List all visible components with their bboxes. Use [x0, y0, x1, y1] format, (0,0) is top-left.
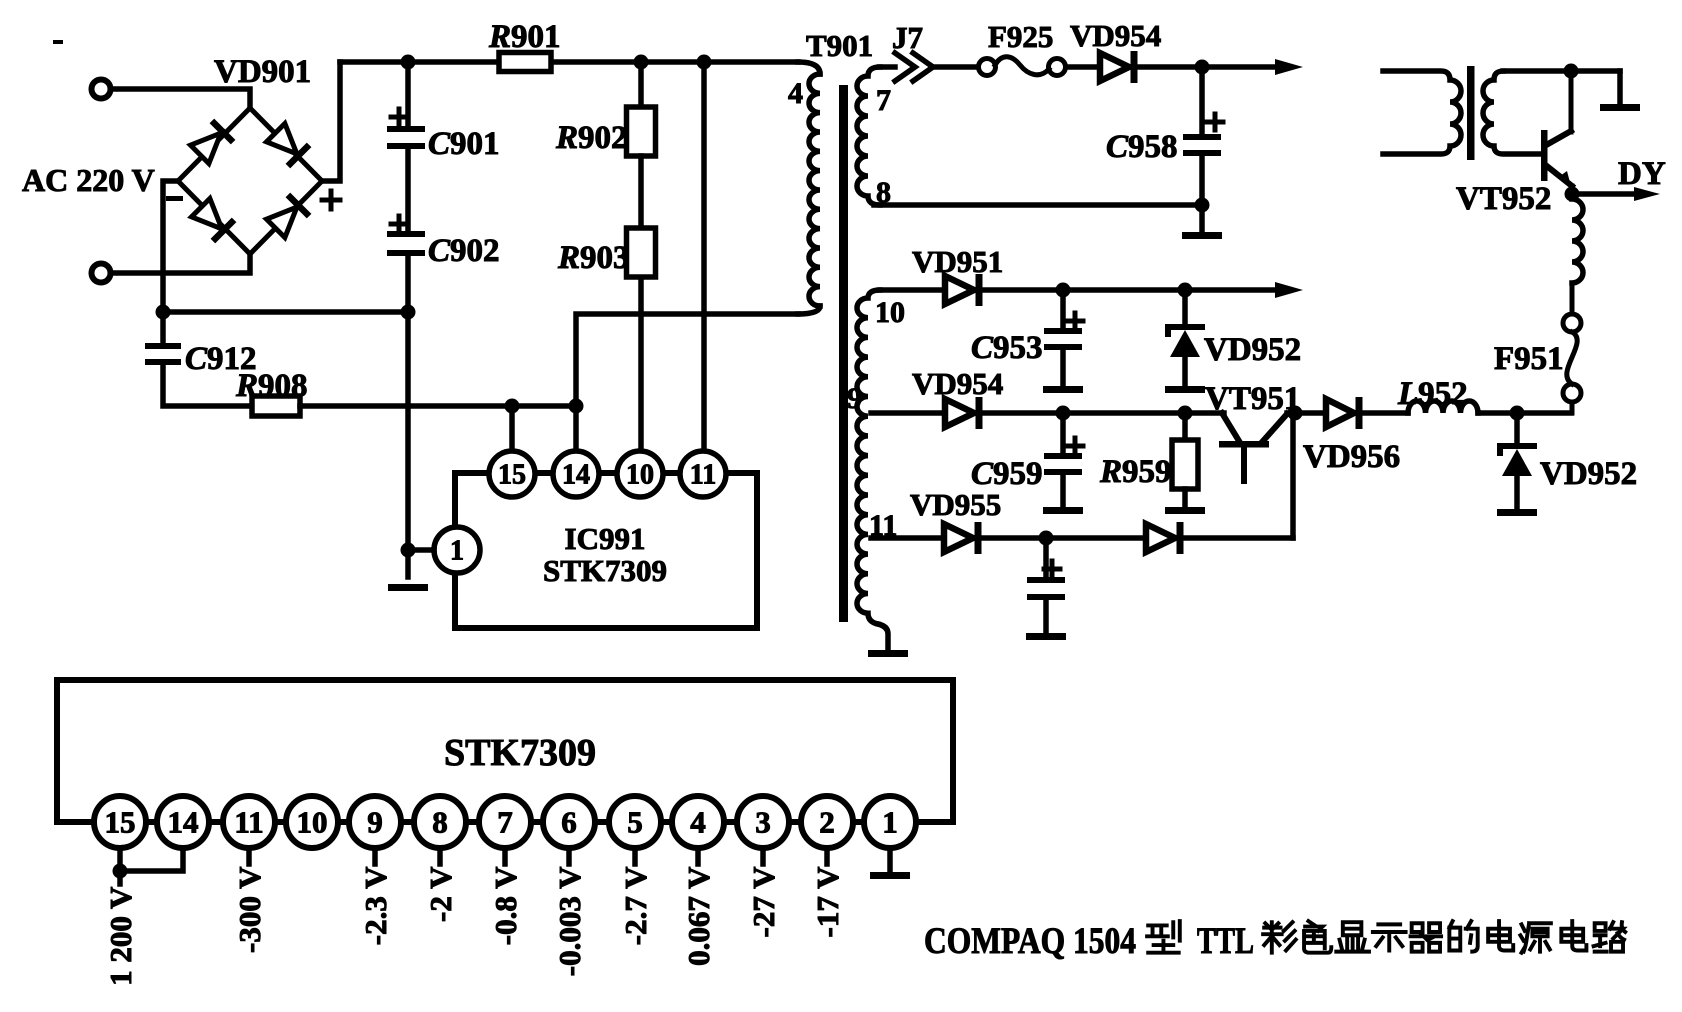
zener diode VD952 (line 10) — [1168, 327, 1202, 334]
wire cap11 ground lead — [1043, 600, 1049, 633]
svg-text:-0.8 V: -0.8 V — [488, 866, 523, 945]
svg-text:R901: R901 — [488, 19, 561, 55]
diode VD956 — [1326, 399, 1354, 427]
ground at VD952b — [1497, 509, 1537, 516]
wire right winding top to ground corner — [1503, 68, 1620, 74]
wire pin1 to ground node — [408, 547, 434, 553]
svg-text:7: 7 — [497, 805, 513, 840]
pinout pin 2 — [801, 796, 853, 848]
transformer T901 primary winding 4 — [809, 74, 820, 306]
ground at C953 — [1043, 386, 1083, 393]
wire VD956 to L952 — [1360, 410, 1408, 416]
wire rail to R902 — [638, 62, 644, 107]
ground at winding bottom — [868, 650, 908, 657]
svg-text:10: 10 — [875, 296, 905, 329]
capacitor line11 plus — [1044, 561, 1060, 577]
caption CJK char 电 — [1561, 921, 1586, 950]
wire winding10 to VD951 — [880, 287, 945, 293]
caption CJK char 的 — [1449, 921, 1477, 952]
wire C902 bottom to B- node — [405, 256, 411, 313]
capacitor C953 — [1044, 328, 1082, 334]
diode line 11 second — [1146, 524, 1175, 552]
output arrow line 10 — [1275, 282, 1303, 298]
capacitor C959 plus — [1067, 438, 1083, 454]
ground at R959 — [1165, 507, 1205, 514]
caption CJK char 显 — [1336, 922, 1369, 951]
svg-text:4: 4 — [690, 805, 706, 840]
pinout pin 7 lead — [502, 848, 508, 864]
svg-text:-300 V: -300 V — [232, 866, 267, 953]
svg-text:T901: T901 — [806, 28, 873, 63]
svg-text:AC 220 V: AC 220 V — [22, 162, 155, 198]
wire rail to pin 11 — [701, 62, 707, 451]
resistor R903 — [627, 228, 656, 277]
svg-text:COMPAQ 1504: COMPAQ 1504 — [924, 921, 1136, 962]
node on rail at pin11 line — [697, 55, 712, 70]
connector J7 — [895, 53, 933, 81]
caption CJK char 示 — [1373, 924, 1406, 950]
svg-text:0.067 V: 0.067 V — [681, 866, 716, 966]
wire VD955 to diode2 — [980, 535, 1146, 541]
capacitor C912 — [145, 343, 181, 349]
svg-text:VD901: VD901 — [214, 54, 311, 90]
capacitor C902 — [387, 231, 425, 237]
svg-text:VD952: VD952 — [1204, 332, 1301, 368]
pinout pin 1 — [864, 796, 916, 848]
pinout pin 10 — [286, 796, 338, 848]
bridge plus sign — [322, 191, 340, 209]
node filter cap line11 — [1039, 531, 1054, 546]
svg-text:DY: DY — [1618, 156, 1666, 192]
pinout pin 14 — [157, 796, 209, 848]
node C958 top — [1195, 60, 1210, 75]
svg-text:C953: C953 — [971, 330, 1043, 366]
transformer T901 core — [839, 85, 848, 622]
node collector top — [1564, 64, 1579, 79]
svg-text:1: 1 — [882, 805, 898, 840]
ground at pinout pin 1 — [870, 872, 910, 879]
output arrow line 7 — [1275, 59, 1303, 75]
node B- junction — [401, 305, 416, 320]
ground at C958 — [1182, 232, 1222, 239]
ground at VD952a — [1165, 386, 1205, 393]
svg-text:14: 14 — [168, 805, 199, 840]
pinout pin 5 — [609, 796, 661, 848]
STK7309 pinout box — [57, 680, 953, 822]
svg-text:5: 5 — [627, 805, 643, 840]
wire R903 to pin 10 — [638, 278, 644, 451]
node R959 top — [1178, 406, 1193, 421]
pinout pin 3 — [737, 796, 789, 848]
node line8-C958 — [1195, 198, 1210, 213]
wire VT951 collector to VD956 — [1287, 410, 1326, 416]
wire L952 to F951 corner — [1478, 410, 1571, 416]
corner winding4 bottom — [798, 306, 820, 314]
pinout pin 3 lead — [760, 848, 766, 864]
wire VD952a top lead — [1182, 290, 1188, 327]
node C912 top — [156, 305, 171, 320]
wire C959 top lead — [1060, 413, 1066, 455]
AC input terminal (bottom) — [92, 264, 111, 283]
node on rail at R902 — [634, 55, 649, 70]
pinout pin 9 — [349, 796, 401, 848]
wire winding4 return / pin14 line — [576, 314, 798, 451]
wire stub to pin 15 — [509, 406, 515, 451]
corner B+ rail into winding 4 — [798, 62, 820, 74]
pinout pin 4 lead — [695, 848, 701, 864]
capacitor C901 — [387, 126, 425, 132]
IC991 box — [455, 473, 757, 628]
pinout pin 8 lead — [437, 848, 443, 864]
svg-text:-27 V: -27 V — [746, 866, 781, 938]
fuse F951 — [1572, 199, 1583, 283]
wire bridge - output down — [163, 181, 178, 345]
svg-text:F925: F925 — [988, 19, 1053, 54]
capacitor C958 plus — [1207, 114, 1223, 130]
pin 1 of IC991 — [434, 527, 480, 573]
svg-text:J7: J7 — [892, 20, 923, 55]
svg-text:VD956: VD956 — [1303, 439, 1400, 475]
svg-text:-2 V: -2 V — [423, 866, 458, 922]
pinout pin 5 lead — [632, 848, 638, 864]
node C959 top — [1056, 406, 1071, 421]
wire VD952b ground lead — [1514, 476, 1520, 509]
caption CJK char 路 — [1594, 922, 1626, 951]
wire F925 to VD954 — [1066, 64, 1100, 70]
wire C958 ground lead — [1199, 205, 1205, 232]
pinout pin 11 — [223, 796, 275, 848]
caption CJK char 源 — [1520, 923, 1551, 952]
wire R908 to pin nodes — [300, 403, 576, 409]
svg-text:2: 2 — [819, 805, 835, 840]
node on rail at C901 — [401, 55, 416, 70]
resistor R901 — [499, 53, 551, 72]
svg-text:11: 11 — [690, 460, 716, 491]
pinout pin 15 — [94, 796, 146, 848]
svg-text:15: 15 — [498, 460, 526, 491]
node pin15 stub — [505, 399, 520, 414]
wire C958 top lead — [1199, 67, 1205, 136]
svg-text:-2.3 V: -2.3 V — [358, 866, 393, 945]
pinout pin 6 — [543, 796, 595, 848]
svg-text:STK7309: STK7309 — [543, 553, 667, 588]
diode VD955 — [944, 524, 973, 552]
svg-text:STK7309: STK7309 — [444, 732, 596, 774]
wire C958 bottom lead — [1199, 156, 1205, 205]
wire VD952a ground lead — [1182, 357, 1188, 386]
pinout pin 11 lead — [246, 848, 252, 864]
wire winding7 to J7 — [880, 64, 895, 70]
pin 14 of IC991 — [553, 451, 599, 497]
diode VD954 (line 9) — [945, 399, 974, 427]
bridge diode VD901-a (left to top) — [189, 119, 235, 165]
svg-text:9: 9 — [847, 382, 862, 415]
bridge diode VD901-c (left to bottom) — [190, 197, 236, 243]
svg-text:7: 7 — [876, 84, 891, 117]
node L952-VD952b — [1510, 406, 1525, 421]
pinout pin 8 — [414, 796, 466, 848]
transistor VT951 — [1222, 413, 1239, 441]
wire diode2 to riser — [1182, 535, 1293, 541]
wire from top terminal to bridge top — [112, 89, 250, 108]
capacitor on line 11 — [1027, 577, 1065, 583]
wire pin15 lead — [117, 848, 123, 884]
wire B- node to C912 node — [163, 309, 408, 315]
wire riser line11 to line9 node — [1290, 413, 1296, 538]
resistor R959 — [1172, 440, 1198, 489]
node pin1 wire junction — [401, 543, 416, 558]
svg-text:L952: L952 — [1397, 376, 1468, 412]
pinout pin 4 — [672, 796, 724, 848]
svg-text:10: 10 — [297, 805, 328, 840]
wire C901 top lead — [405, 62, 411, 128]
pinout pin 2 lead — [824, 848, 830, 864]
caption CJK char 型 — [1147, 921, 1180, 953]
fuse F925 — [979, 59, 996, 76]
wire corner to ground — [1617, 71, 1623, 104]
pin 10 of IC991 — [617, 451, 663, 497]
svg-text:3: 3 — [755, 805, 771, 840]
capacitor C958 — [1183, 134, 1221, 140]
node pin15-pin14 tie — [113, 864, 128, 879]
svg-text:VD954: VD954 — [1070, 18, 1161, 53]
wire VD952b top lead — [1514, 413, 1520, 446]
AC input terminal (top) — [92, 80, 111, 99]
wire R959 top lead — [1182, 413, 1188, 440]
diode VD951 — [945, 276, 974, 304]
transformer T901 secondary winding 10-9-11 — [857, 290, 880, 624]
svg-text:VT952: VT952 — [1456, 181, 1551, 217]
wire C912 bottom corner to R908 — [163, 362, 252, 406]
wire line 8 return — [874, 202, 1202, 208]
svg-text:C901: C901 — [428, 126, 500, 162]
pin 15 of IC991 — [489, 451, 535, 497]
bridge diode VD901-d (bottom to right) — [265, 193, 311, 239]
capacitor C959 — [1044, 453, 1082, 459]
wire pin14 tie — [120, 848, 183, 871]
capacitor C902 plus — [391, 216, 407, 232]
wire winding9 to VD954b — [871, 410, 945, 416]
svg-text:R959: R959 — [1099, 454, 1172, 490]
B+ rail y62 — [340, 59, 798, 65]
wire R959 ground lead — [1182, 489, 1188, 507]
node DY — [1565, 187, 1580, 202]
wire bridge + output up to B+ rail — [322, 62, 340, 181]
svg-text:1 200 V: 1 200 V — [103, 886, 138, 986]
ground at B- line — [388, 584, 428, 591]
ground at C959 — [1043, 507, 1083, 514]
svg-text:VD952: VD952 — [1540, 456, 1637, 492]
svg-text:14: 14 — [562, 460, 590, 491]
svg-text:-2.7 V: -2.7 V — [618, 866, 653, 945]
node C953 top — [1056, 283, 1071, 298]
wire B- down to pin1 node — [405, 312, 411, 577]
capacitor C901 plus — [391, 109, 407, 125]
wire DY output — [1572, 191, 1636, 197]
caption CJK char 电 — [1488, 921, 1513, 950]
node pin14 stub — [569, 399, 584, 414]
pinout pin 9 lead — [372, 848, 378, 864]
capacitor C953 plus — [1067, 313, 1083, 329]
node line9-line11 junction — [1288, 406, 1303, 421]
wire R902 to R903 — [638, 156, 644, 228]
resistor R908 — [252, 396, 300, 416]
driver transformer left winding — [1383, 71, 1461, 154]
caption CJK char 色 — [1304, 921, 1331, 953]
wire pin1 ground lead — [887, 848, 893, 872]
transformer T901 winding 7-8 — [857, 67, 880, 205]
driver transformer core — [1467, 66, 1475, 160]
wire VD954b to VT951 emitter — [981, 410, 1224, 416]
bridge diode VD901-b (top to right) — [265, 122, 311, 168]
svg-text:R903: R903 — [557, 240, 630, 276]
svg-text:9: 9 — [367, 805, 383, 840]
wire winding11 to VD955 — [871, 535, 944, 541]
svg-text:VD951: VD951 — [912, 244, 1003, 279]
svg-text:C902: C902 — [428, 233, 500, 269]
output arrow DY — [1634, 187, 1660, 201]
svg-text:IC991: IC991 — [565, 521, 646, 556]
wire winding bottom to ground — [878, 624, 888, 650]
svg-text:1: 1 — [450, 536, 464, 567]
ground at driver transformer — [1600, 104, 1640, 111]
diode VD954 (line 7) — [1100, 53, 1129, 81]
svg-text:TTL: TTL — [1197, 921, 1254, 962]
wire C901-C902 — [405, 149, 411, 233]
svg-text:-17 V: -17 V — [810, 866, 845, 938]
caption CJK char 彩 — [1263, 922, 1296, 953]
wire J7 to F925 — [931, 64, 978, 70]
svg-text:4: 4 — [788, 77, 803, 110]
wire C959 ground lead — [1060, 475, 1066, 507]
svg-text:C958: C958 — [1106, 129, 1178, 165]
stray mark top-left — [53, 40, 63, 44]
pin 11 of IC991 — [680, 451, 726, 497]
svg-text:10: 10 — [626, 460, 654, 491]
svg-text:15: 15 — [105, 805, 136, 840]
inductor L952 — [1408, 401, 1478, 413]
driver transformer right winding — [1483, 71, 1540, 154]
ground at line11 cap — [1026, 633, 1066, 640]
transistor VT952 — [1569, 71, 1574, 132]
svg-text:11: 11 — [234, 805, 263, 840]
svg-text:8: 8 — [432, 805, 448, 840]
wire C953 top lead — [1060, 290, 1066, 330]
bridge rectifier VD901 diamond — [178, 108, 322, 254]
caption CJK char 器 — [1411, 923, 1442, 951]
svg-text:R902: R902 — [555, 120, 628, 156]
pinout pin 7 — [479, 796, 531, 848]
svg-text:6: 6 — [561, 805, 577, 840]
zener diode VD952 (output) — [1500, 446, 1534, 453]
wire VD951 to output arrow — [981, 287, 1280, 293]
resistor R902 — [627, 107, 656, 156]
wire C953 ground lead — [1060, 350, 1066, 386]
bridge minus sign — [166, 196, 183, 201]
svg-text:-0.003 V: -0.003 V — [552, 866, 587, 976]
wire VD954 to output arrow — [1136, 64, 1280, 70]
node VD952a top — [1178, 283, 1193, 298]
svg-text:VD955: VD955 — [910, 487, 1001, 522]
svg-text:VD954: VD954 — [912, 366, 1003, 401]
pinout pin 6 lead — [566, 848, 572, 864]
svg-text:F951: F951 — [1494, 341, 1564, 377]
wire cap11 top lead — [1043, 538, 1049, 579]
wire from bottom terminal to bridge bottom — [112, 254, 250, 273]
